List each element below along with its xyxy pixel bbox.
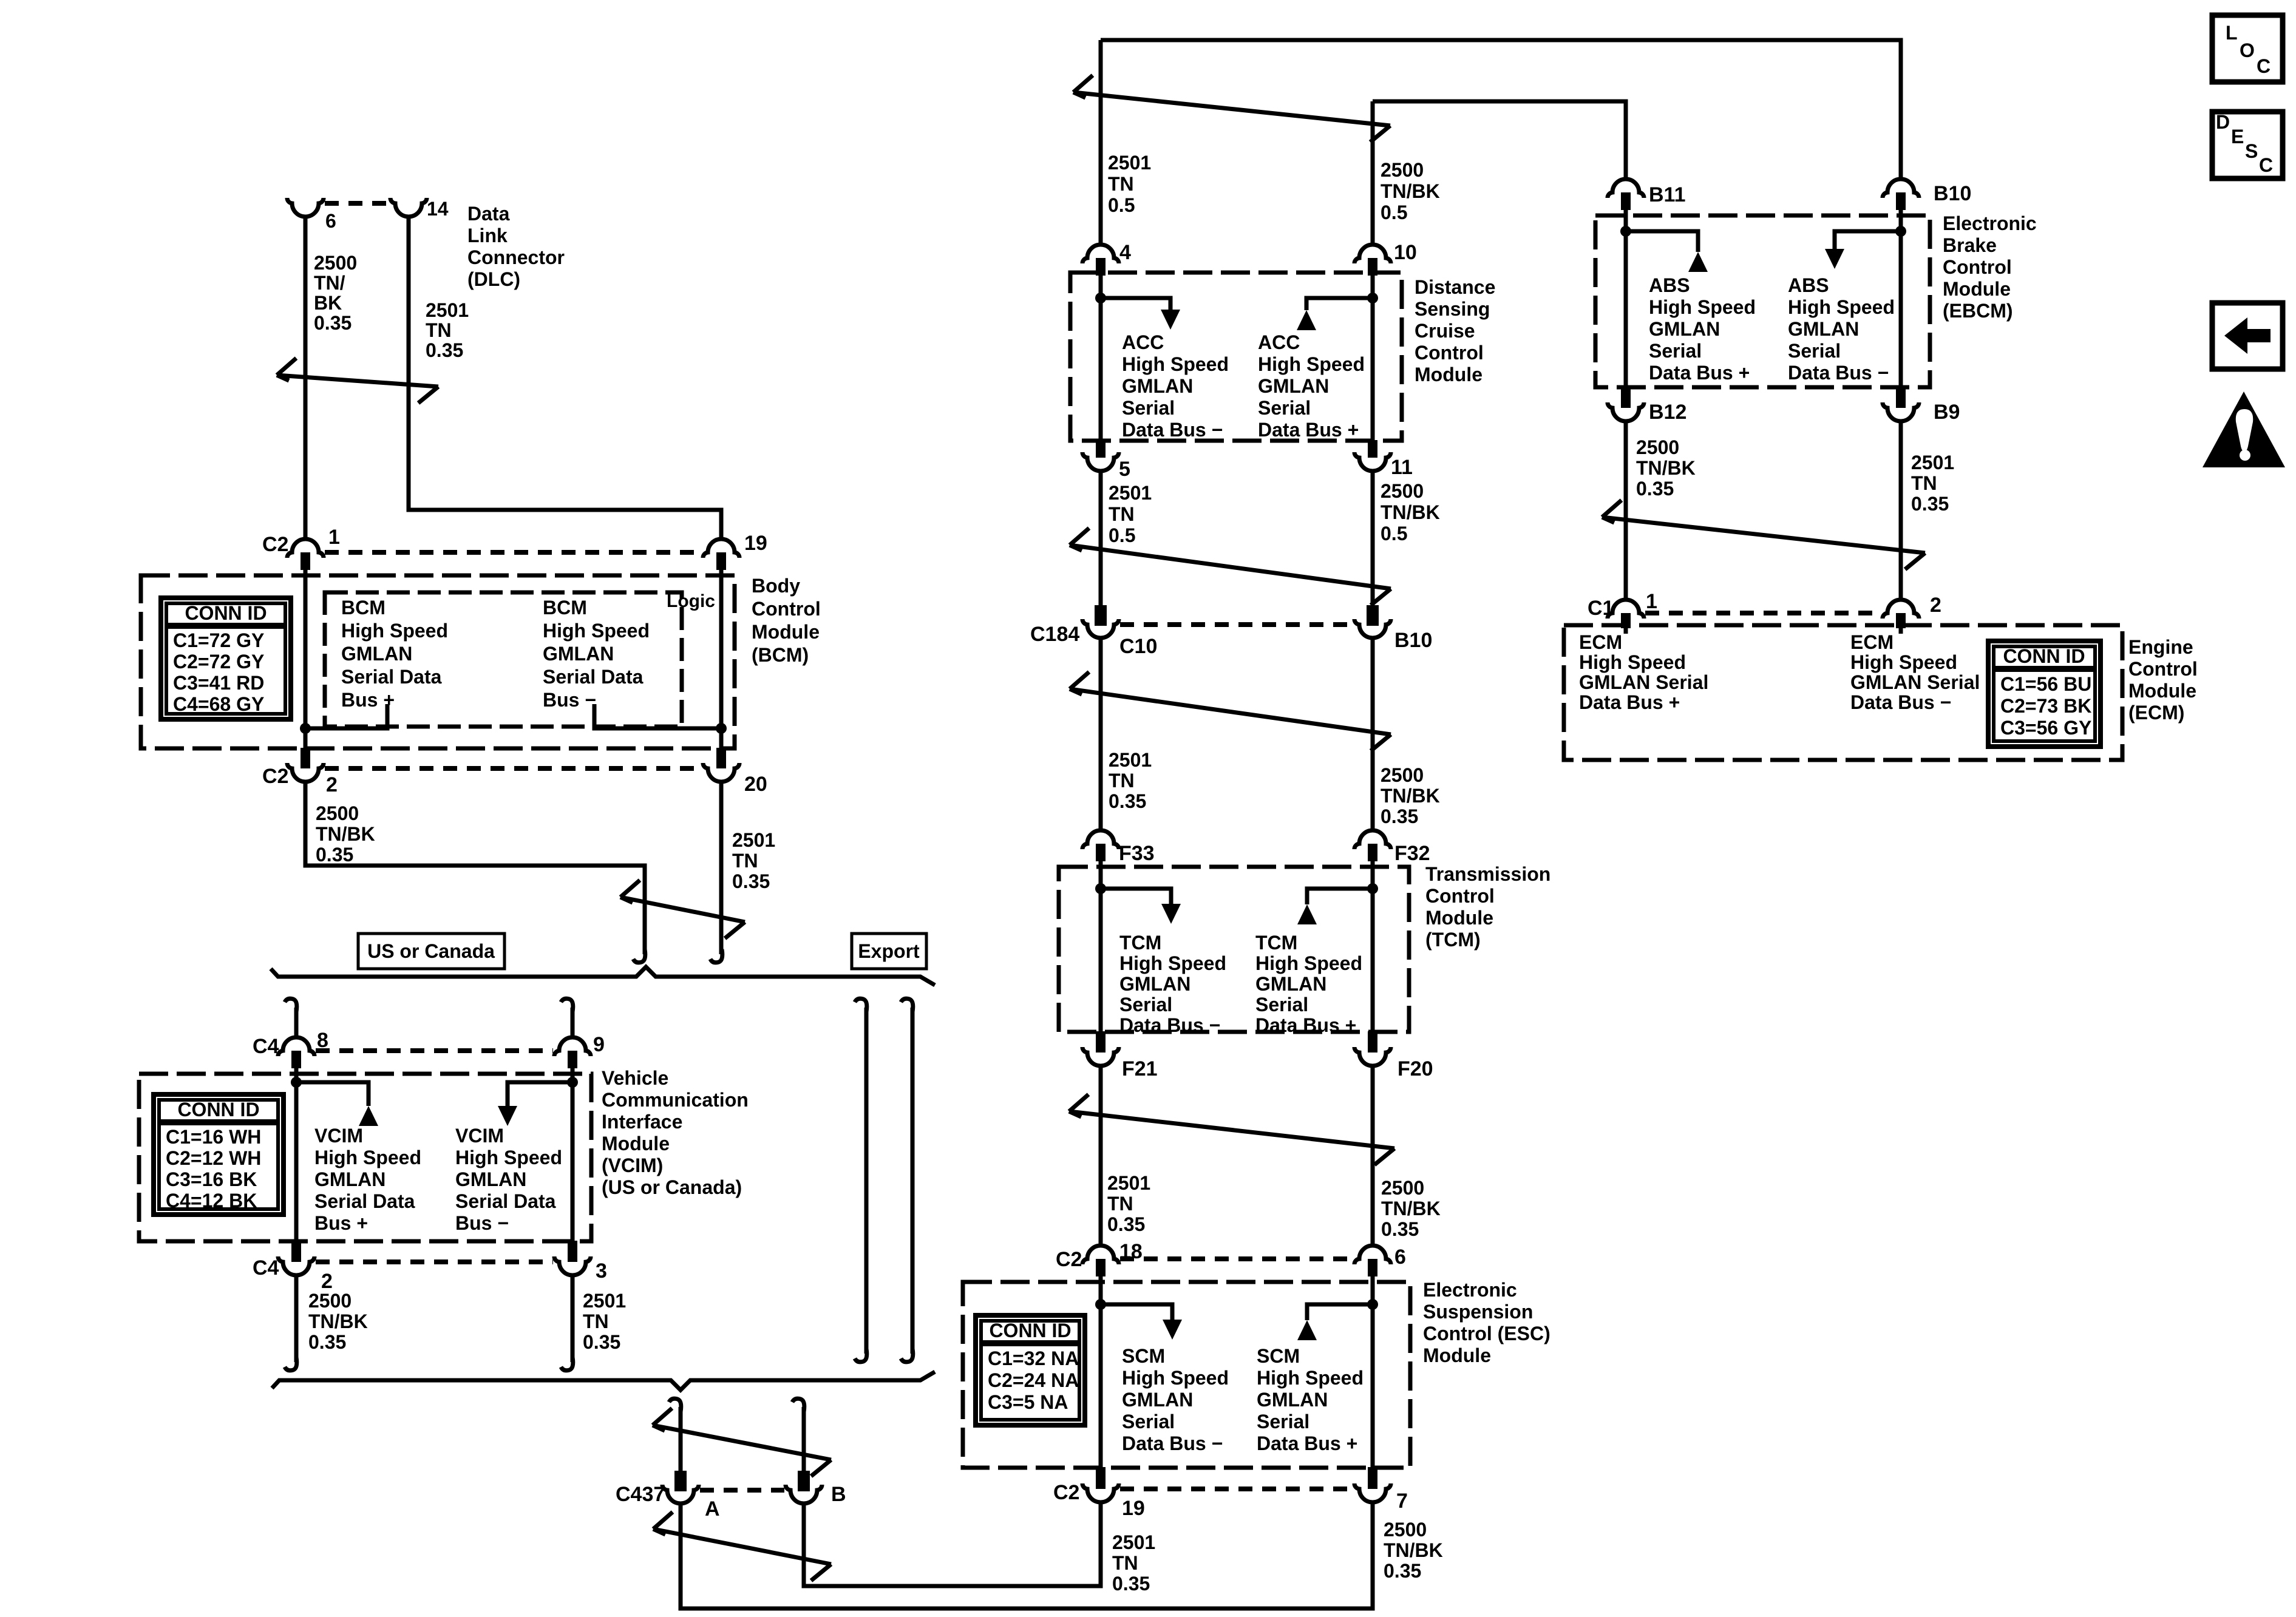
svg-text:2500: 2500 bbox=[314, 252, 357, 274]
ACC pin 10 terminal bbox=[1368, 258, 1377, 276]
ESC internal wire left bbox=[1099, 1276, 1103, 1467]
svg-text:2500: 2500 bbox=[308, 1290, 352, 1312]
svg-text:0.35: 0.35 bbox=[1636, 478, 1674, 500]
arrow down ABS bus- bbox=[1825, 249, 1844, 269]
wire to ACC pin 4 bbox=[1099, 40, 1103, 245]
svg-text:0.5: 0.5 bbox=[1108, 194, 1135, 216]
svg-text:C1=72 GY: C1=72 GY bbox=[173, 629, 264, 651]
ECM pin 2 cup bbox=[1883, 600, 1919, 619]
svg-text:(BCM): (BCM) bbox=[752, 644, 809, 666]
svg-text:CONN ID: CONN ID bbox=[989, 1320, 1071, 1341]
svg-text:High Speed: High Speed bbox=[1255, 952, 1362, 974]
svg-text:High Speed: High Speed bbox=[1788, 296, 1895, 318]
svg-text:2501: 2501 bbox=[1109, 749, 1152, 771]
svg-text:1: 1 bbox=[328, 526, 340, 549]
wire B9 to ECM 2 bbox=[1899, 421, 1903, 600]
svg-text:0.5: 0.5 bbox=[1381, 202, 1407, 223]
BCM pin 1 cup bbox=[287, 539, 324, 558]
svg-text:Data Bus +: Data Bus + bbox=[1649, 362, 1750, 384]
module ESC box bbox=[963, 1282, 1410, 1468]
svg-text:Bus −: Bus − bbox=[455, 1212, 509, 1234]
wire splice to C437 B bbox=[802, 1407, 806, 1471]
ESC pin 6 cup bbox=[1354, 1246, 1391, 1264]
svg-text:B10: B10 bbox=[1394, 629, 1432, 652]
svg-text:GMLAN Serial: GMLAN Serial bbox=[1850, 671, 1980, 693]
bus wire 2501 top bbox=[1101, 40, 1901, 179]
svg-text:E: E bbox=[2231, 126, 2244, 147]
svg-text:Control: Control bbox=[2128, 658, 2198, 680]
ACC stub left bbox=[1101, 298, 1170, 310]
VCIM CONN ID table bbox=[154, 1094, 284, 1215]
svg-text:C2: C2 bbox=[1056, 1248, 1082, 1271]
svg-text:0.5: 0.5 bbox=[1109, 524, 1135, 546]
arrow up ABS bus+ bbox=[1688, 252, 1708, 272]
svg-text:0.35: 0.35 bbox=[1381, 1218, 1419, 1240]
BCM pin 19 terminal bbox=[716, 552, 726, 570]
svg-text:B11: B11 bbox=[1649, 183, 1686, 206]
EBCM stub right bbox=[1835, 231, 1901, 249]
svg-text:Serial: Serial bbox=[1122, 397, 1175, 419]
arrow up ACC bus+ bbox=[1297, 310, 1316, 330]
BCM pin 2 cup bbox=[287, 763, 324, 782]
svg-text:0.35: 0.35 bbox=[1109, 790, 1146, 812]
svg-text:High Speed: High Speed bbox=[1257, 1367, 1364, 1389]
BCM pin 20 cup bbox=[703, 763, 739, 782]
svg-text:Serial: Serial bbox=[1649, 340, 1702, 362]
ESC pin 7 terminal bbox=[1368, 1467, 1377, 1489]
VCIM internal wire left bbox=[294, 1068, 299, 1241]
wire to ACC pin 10 bbox=[1371, 101, 1375, 245]
svg-text:F32: F32 bbox=[1394, 842, 1430, 865]
arrow up VCIM bus+ bbox=[359, 1106, 378, 1126]
BCM C2 top connector dashed line bbox=[325, 550, 702, 555]
curl Export wire 1 bottom bbox=[855, 1349, 867, 1362]
junction ESC left bbox=[1095, 1299, 1106, 1310]
EBCM internal wire right bbox=[1899, 210, 1903, 387]
label box US or Canada bbox=[358, 934, 504, 969]
svg-text:Distance: Distance bbox=[1415, 276, 1495, 298]
ESC pin 19 terminal bbox=[1096, 1467, 1106, 1489]
TCM pin F20 cup bbox=[1354, 1047, 1391, 1066]
EBCM B9 terminal bbox=[1896, 387, 1906, 408]
svg-text:2501: 2501 bbox=[1108, 152, 1151, 174]
svg-text:Data Bus −: Data Bus − bbox=[1122, 419, 1223, 441]
ACC pin 5 terminal bbox=[1096, 440, 1106, 458]
splice brace top bbox=[271, 967, 935, 985]
svg-text:Electronic: Electronic bbox=[1423, 1279, 1517, 1301]
svg-text:Data Bus +: Data Bus + bbox=[1255, 1014, 1356, 1036]
svg-text:Data Bus +: Data Bus + bbox=[1258, 419, 1359, 441]
svg-text:High Speed: High Speed bbox=[1579, 651, 1686, 673]
svg-text:Module: Module bbox=[1943, 278, 2011, 300]
module TCM box bbox=[1059, 867, 1409, 1032]
TCM F33 terminal bbox=[1096, 844, 1106, 861]
ESC C2 bottom connector dashed line bbox=[1120, 1486, 1353, 1491]
C437 pin B cup bbox=[786, 1485, 822, 1503]
svg-text:TN: TN bbox=[1109, 770, 1135, 792]
TCM internal wire left bbox=[1099, 861, 1103, 1031]
curl Export wire 2 bottom bbox=[901, 1349, 913, 1362]
wire DLC6 to BCM C2-1 bbox=[304, 217, 308, 539]
arrow down SCM bus- bbox=[1163, 1320, 1182, 1340]
VCIM stub left bbox=[296, 1082, 369, 1106]
ECM pin 1 terminal bbox=[1621, 613, 1631, 628]
C184 B10 terminal bbox=[1367, 605, 1379, 626]
C184 C10 cup bbox=[1082, 619, 1119, 638]
BCM pin 1 terminal bbox=[301, 552, 310, 570]
svg-text:19: 19 bbox=[744, 532, 767, 555]
wire F21 to ESC 18 bbox=[1099, 1066, 1103, 1246]
curl VCIM3 bbox=[561, 1357, 573, 1371]
module EBCM box bbox=[1595, 215, 1930, 387]
svg-text:F33: F33 bbox=[1119, 842, 1155, 865]
ESC CONN ID table bbox=[976, 1315, 1085, 1425]
junction VCIM left bbox=[291, 1077, 302, 1088]
BCM internal stub left bbox=[305, 704, 387, 728]
connector DLC pin 6 cup bbox=[287, 198, 324, 217]
svg-text:10: 10 bbox=[1394, 241, 1417, 264]
svg-text:A: A bbox=[705, 1497, 720, 1520]
junction ACC right bbox=[1367, 293, 1378, 303]
svg-text:CONN ID: CONN ID bbox=[177, 1099, 259, 1120]
svg-text:Interface: Interface bbox=[602, 1111, 682, 1133]
wire C437A to ESC pin 7 bbox=[681, 1503, 1373, 1609]
wire BCM2 to splice bbox=[305, 782, 645, 954]
svg-text:C4=68 GY: C4=68 GY bbox=[173, 693, 264, 715]
connector DLC pin 14 cup bbox=[390, 198, 427, 217]
svg-text:High Speed: High Speed bbox=[1649, 296, 1756, 318]
TCM internal wire right bbox=[1371, 861, 1375, 1031]
svg-text:Serial Data: Serial Data bbox=[455, 1190, 556, 1212]
EBCM B10 terminal bbox=[1896, 192, 1906, 210]
svg-text:Bus −: Bus − bbox=[543, 689, 596, 711]
svg-text:C10: C10 bbox=[1119, 635, 1157, 658]
module BCM box bbox=[141, 575, 735, 748]
ECM C1 connector dashed line bbox=[1645, 611, 1881, 615]
VCIM pin 2 terminal bbox=[291, 1241, 301, 1262]
C437 pin A terminal bbox=[674, 1471, 687, 1491]
svg-text:US or Canada: US or Canada bbox=[367, 940, 495, 962]
ESC pin 18 cup bbox=[1082, 1246, 1119, 1264]
wire ACC11 to C184 bbox=[1371, 471, 1375, 605]
svg-text:ACC: ACC bbox=[1258, 331, 1300, 353]
BCM internal stub right bbox=[594, 704, 721, 728]
svg-text:Connector: Connector bbox=[467, 246, 565, 268]
svg-text:11: 11 bbox=[1391, 456, 1413, 479]
svg-text:GMLAN: GMLAN bbox=[543, 643, 614, 665]
ACC stub right bbox=[1306, 298, 1373, 310]
svg-text:Serial: Serial bbox=[1119, 994, 1172, 1015]
off-page arrow across DLC wires bbox=[277, 358, 438, 403]
TCM stub right bbox=[1307, 889, 1373, 904]
DLC connector dashed line bbox=[325, 201, 389, 206]
svg-text:SCM: SCM bbox=[1257, 1345, 1300, 1367]
svg-text:Transmission: Transmission bbox=[1425, 863, 1550, 885]
svg-text:5: 5 bbox=[1119, 458, 1130, 481]
VCIM stub right bbox=[508, 1082, 572, 1106]
ECM pin 1 cup bbox=[1608, 600, 1644, 619]
svg-text:Serial: Serial bbox=[1258, 397, 1311, 419]
svg-text:0.35: 0.35 bbox=[732, 870, 770, 892]
svg-text:14: 14 bbox=[427, 198, 449, 220]
svg-text:GMLAN: GMLAN bbox=[1122, 1389, 1193, 1411]
ESC stub left bbox=[1101, 1304, 1172, 1320]
TCM F21 terminal bbox=[1096, 1031, 1106, 1053]
svg-text:TCM: TCM bbox=[1255, 932, 1297, 954]
svg-text:Module: Module bbox=[2128, 680, 2196, 702]
svg-text:GMLAN: GMLAN bbox=[1255, 973, 1326, 995]
svg-text:Data Bus +: Data Bus + bbox=[1579, 691, 1680, 713]
TCM pin F33 cup bbox=[1082, 830, 1119, 849]
svg-text:4: 4 bbox=[1119, 241, 1131, 264]
svg-text:C3=5 NA: C3=5 NA bbox=[988, 1391, 1068, 1413]
svg-text:2500: 2500 bbox=[316, 802, 359, 824]
svg-text:TN: TN bbox=[1109, 503, 1135, 525]
svg-text:C4=12 BK: C4=12 BK bbox=[166, 1190, 257, 1212]
TCM stub left bbox=[1101, 889, 1171, 904]
ESC pin 6 terminal bbox=[1368, 1259, 1377, 1276]
svg-text:0.35: 0.35 bbox=[426, 339, 463, 361]
svg-text:S: S bbox=[2245, 140, 2258, 162]
svg-text:19: 19 bbox=[1122, 1497, 1145, 1520]
wire to VCIM pin 9 bbox=[571, 1008, 575, 1037]
svg-text:GMLAN: GMLAN bbox=[341, 643, 412, 665]
svg-text:9: 9 bbox=[593, 1033, 605, 1056]
svg-text:ABS: ABS bbox=[1788, 274, 1829, 296]
svg-text:7: 7 bbox=[1396, 1490, 1408, 1513]
svg-text:TN/: TN/ bbox=[314, 272, 345, 294]
svg-text:C437: C437 bbox=[616, 1483, 665, 1506]
wire BCM20 to splice bbox=[719, 782, 724, 954]
ACC internal wire left bbox=[1099, 276, 1103, 440]
BCM pin 19 cup bbox=[703, 539, 739, 558]
Export wire 1 bbox=[864, 1008, 869, 1354]
off-page arrow top middle bbox=[1073, 75, 1390, 142]
bus wire 2500 top bbox=[1373, 101, 1626, 179]
arrow down ACC bus- bbox=[1161, 310, 1180, 330]
VCIM pin 9 cup bbox=[554, 1037, 591, 1056]
ACC pin 4 terminal bbox=[1096, 258, 1106, 276]
svg-text:C2=72 GY: C2=72 GY bbox=[173, 651, 264, 673]
svg-text:TN/BK: TN/BK bbox=[1384, 1539, 1443, 1561]
off-page arrow above C184 bbox=[1070, 528, 1391, 605]
svg-text:Communication: Communication bbox=[602, 1089, 749, 1111]
svg-text:0.35: 0.35 bbox=[1911, 493, 1949, 515]
curl US wire 8 top bbox=[285, 998, 297, 1012]
svg-text:0.35: 0.35 bbox=[316, 844, 353, 866]
wire BCM pin19 to pin20 internal bbox=[719, 570, 724, 748]
module VCIM box bbox=[139, 1074, 591, 1241]
svg-text:B12: B12 bbox=[1649, 401, 1686, 424]
EBCM pin B12 cup bbox=[1608, 402, 1644, 421]
svg-text:Data Bus −: Data Bus − bbox=[1119, 1014, 1220, 1036]
svg-text:TN: TN bbox=[426, 319, 452, 341]
svg-text:2500: 2500 bbox=[1381, 480, 1424, 502]
junction VCIM right bbox=[567, 1077, 578, 1088]
svg-text:SCM: SCM bbox=[1122, 1345, 1165, 1367]
VCIM pin 3 cup bbox=[554, 1256, 591, 1275]
VCIM pin 2 cup bbox=[278, 1256, 314, 1275]
svg-text:Engine: Engine bbox=[2128, 636, 2193, 658]
EBCM internal wire left bbox=[1624, 210, 1628, 387]
BCM pin 2 terminal bbox=[301, 748, 310, 768]
svg-text:GMLAN: GMLAN bbox=[1122, 375, 1193, 397]
svg-text:Control (ESC): Control (ESC) bbox=[1423, 1323, 1550, 1344]
svg-text:0.35: 0.35 bbox=[1381, 805, 1418, 827]
svg-text:Serial: Serial bbox=[1257, 1411, 1309, 1432]
VCIM pin 9 terminal bbox=[568, 1051, 577, 1068]
svg-text:6: 6 bbox=[1394, 1246, 1406, 1269]
ACC pin 10 cup bbox=[1354, 245, 1391, 263]
svg-text:F20: F20 bbox=[1398, 1057, 1433, 1080]
wire to VCIM pin 8 bbox=[294, 1008, 299, 1037]
curl Export wire 2 top bbox=[901, 998, 913, 1012]
svg-text:0.35: 0.35 bbox=[1384, 1560, 1421, 1582]
svg-text:2501: 2501 bbox=[426, 299, 469, 321]
EBCM pin B10 cup bbox=[1883, 179, 1919, 198]
svg-text:TN/BK: TN/BK bbox=[1636, 457, 1696, 479]
svg-text:Serial: Serial bbox=[1255, 994, 1308, 1015]
svg-text:0.35: 0.35 bbox=[1107, 1213, 1145, 1235]
svg-text:TN: TN bbox=[583, 1310, 609, 1332]
svg-text:2501: 2501 bbox=[583, 1290, 626, 1312]
svg-text:C2=73 BK: C2=73 BK bbox=[2000, 695, 2091, 717]
svg-text:TN/BK: TN/BK bbox=[316, 823, 375, 845]
svg-text:C2: C2 bbox=[1053, 1481, 1079, 1504]
svg-text:Serial: Serial bbox=[1788, 340, 1841, 362]
ECM CONN ID table bbox=[1988, 641, 2101, 747]
icon back-arrow box bbox=[2212, 303, 2283, 369]
svg-text:B10: B10 bbox=[1934, 182, 1971, 205]
svg-text:Brake: Brake bbox=[1943, 234, 1997, 256]
svg-text:TN: TN bbox=[1112, 1552, 1138, 1574]
svg-text:Data Bus −: Data Bus − bbox=[1122, 1432, 1223, 1454]
svg-text:VCIM: VCIM bbox=[314, 1125, 363, 1147]
C184 C10 terminal bbox=[1095, 605, 1107, 626]
svg-text:8: 8 bbox=[317, 1029, 328, 1052]
arrow down TCM bus- bbox=[1161, 904, 1181, 924]
svg-text:High Speed: High Speed bbox=[1122, 353, 1229, 375]
EBCM B11 terminal bbox=[1621, 192, 1631, 210]
wire B10 to TCM F32 bbox=[1371, 638, 1375, 830]
svg-text:C: C bbox=[2257, 55, 2271, 77]
TCM F32 terminal bbox=[1368, 844, 1377, 861]
svg-text:2500: 2500 bbox=[1381, 1177, 1424, 1199]
svg-text:Bus +: Bus + bbox=[341, 689, 395, 711]
arrow down VCIM bus- bbox=[498, 1106, 517, 1126]
svg-text:(EBCM): (EBCM) bbox=[1943, 300, 2013, 322]
svg-text:Control: Control bbox=[1425, 885, 1495, 907]
svg-text:Module: Module bbox=[1425, 907, 1493, 929]
svg-text:2501: 2501 bbox=[1112, 1531, 1155, 1553]
svg-text:Control: Control bbox=[1415, 342, 1484, 364]
svg-text:Serial Data: Serial Data bbox=[341, 666, 442, 688]
svg-text:B: B bbox=[831, 1483, 846, 1506]
svg-text:Logic: Logic bbox=[667, 591, 715, 611]
svg-text:C2=24 NA: C2=24 NA bbox=[988, 1369, 1079, 1391]
svg-text:C3=41 RD: C3=41 RD bbox=[173, 672, 264, 694]
wire ACC5 to C184 bbox=[1099, 471, 1103, 605]
svg-text:Vehicle: Vehicle bbox=[602, 1067, 668, 1089]
ACC internal wire right bbox=[1371, 276, 1375, 440]
svg-text:L: L bbox=[2226, 22, 2238, 44]
svg-text:Control: Control bbox=[1943, 256, 2012, 278]
wire end curl BCM2 bbox=[633, 949, 645, 963]
arrow up SCM bus+ bbox=[1297, 1320, 1317, 1340]
svg-text:High Speed: High Speed bbox=[1122, 1367, 1229, 1389]
ECM pin 2 terminal bbox=[1896, 613, 1906, 628]
svg-text:TN/BK: TN/BK bbox=[1381, 501, 1440, 523]
junction ACC left bbox=[1095, 293, 1106, 303]
svg-text:20: 20 bbox=[744, 773, 767, 796]
svg-text:(US or Canada): (US or Canada) bbox=[602, 1176, 742, 1198]
svg-text:2501: 2501 bbox=[732, 829, 775, 851]
svg-text:BCM: BCM bbox=[341, 597, 385, 619]
ESC C2 top connector dashed line bbox=[1120, 1256, 1353, 1261]
svg-text:2500: 2500 bbox=[1384, 1519, 1427, 1541]
svg-text:GMLAN: GMLAN bbox=[1788, 318, 1859, 340]
svg-text:F21: F21 bbox=[1122, 1057, 1158, 1080]
svg-text:Serial: Serial bbox=[1122, 1411, 1175, 1432]
EBCM stub left bbox=[1626, 231, 1698, 252]
svg-text:D: D bbox=[2216, 111, 2230, 133]
VCIM internal wire right bbox=[571, 1068, 575, 1241]
svg-text:High Speed: High Speed bbox=[1850, 651, 1957, 673]
svg-text:TN/BK: TN/BK bbox=[308, 1310, 368, 1332]
BCM pin 20 terminal bbox=[716, 748, 726, 768]
svg-text:Body: Body bbox=[752, 575, 800, 597]
wire F20 to ESC 6 bbox=[1371, 1066, 1375, 1246]
wire end curl BCM20 bbox=[710, 949, 722, 963]
svg-text:Control: Control bbox=[752, 598, 821, 620]
svg-text:High Speed: High Speed bbox=[314, 1147, 421, 1168]
svg-text:CONN ID: CONN ID bbox=[2003, 645, 2085, 667]
ACC pin 5 cup bbox=[1082, 452, 1119, 471]
svg-text:TN/BK: TN/BK bbox=[1381, 180, 1440, 202]
svg-text:C: C bbox=[2259, 154, 2273, 176]
junction BCM left bbox=[300, 723, 311, 734]
label box Export bbox=[852, 934, 926, 969]
svg-text:TN/BK: TN/BK bbox=[1381, 1198, 1441, 1219]
svg-text:C2: C2 bbox=[262, 765, 288, 788]
ACC pin 11 cup bbox=[1354, 452, 1391, 471]
junction ESC right bbox=[1367, 1299, 1378, 1310]
svg-text:(ECM): (ECM) bbox=[2128, 702, 2184, 724]
svg-text:0.35: 0.35 bbox=[314, 312, 352, 334]
svg-text:BK: BK bbox=[314, 292, 342, 314]
TCM pin F32 cup bbox=[1354, 830, 1391, 849]
VCIM C4 top connector dashed line bbox=[316, 1048, 553, 1053]
VCIM pin 8 cup bbox=[278, 1037, 314, 1056]
EBCM B12 terminal bbox=[1621, 387, 1631, 408]
splice brace bottom bbox=[272, 1372, 935, 1390]
svg-text:BCM: BCM bbox=[543, 597, 587, 619]
svg-text:C4: C4 bbox=[253, 1035, 279, 1058]
svg-text:Serial Data: Serial Data bbox=[543, 666, 644, 688]
svg-text:GMLAN Serial: GMLAN Serial bbox=[1579, 671, 1708, 693]
svg-text:High Speed: High Speed bbox=[1258, 353, 1365, 375]
ESC pin 19 cup bbox=[1082, 1483, 1119, 1502]
svg-text:C4: C4 bbox=[253, 1256, 279, 1280]
svg-text:C1: C1 bbox=[1588, 597, 1614, 620]
ESC pin 18 terminal bbox=[1096, 1259, 1106, 1276]
icon warning triangle bbox=[2203, 392, 2285, 467]
svg-text:(DLC): (DLC) bbox=[467, 268, 520, 290]
TCM pin F21 cup bbox=[1082, 1047, 1119, 1066]
C437 pin A cup bbox=[662, 1485, 699, 1503]
svg-text:2500: 2500 bbox=[1381, 159, 1424, 181]
svg-text:Serial Data: Serial Data bbox=[314, 1190, 415, 1212]
